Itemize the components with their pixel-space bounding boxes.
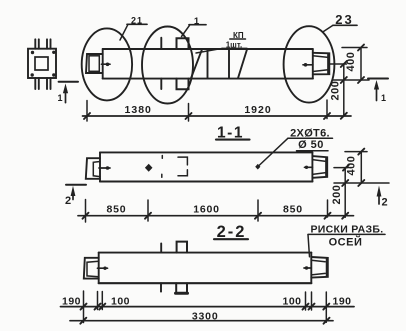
svg-text:21: 21 xyxy=(131,16,143,26)
svg-text:1: 1 xyxy=(381,93,386,103)
svg-text:2-2: 2-2 xyxy=(217,223,247,241)
svg-text:2ХØТ6.: 2ХØТ6. xyxy=(290,127,330,139)
svg-text:100: 100 xyxy=(111,295,130,307)
svg-text:3300: 3300 xyxy=(192,311,219,323)
svg-text:200: 200 xyxy=(330,81,342,101)
svg-text:100: 100 xyxy=(282,295,301,307)
svg-text:КП: КП xyxy=(233,31,244,40)
svg-text:1380: 1380 xyxy=(125,104,152,116)
svg-text:ОСЕЙ: ОСЕЙ xyxy=(329,235,363,248)
svg-text:200: 200 xyxy=(331,185,343,205)
svg-text:1920: 1920 xyxy=(244,104,271,116)
svg-text:1: 1 xyxy=(194,16,200,27)
svg-text:Ø 50: Ø 50 xyxy=(298,139,324,151)
svg-text:1-1: 1-1 xyxy=(217,125,244,142)
svg-text:400: 400 xyxy=(346,156,358,176)
svg-text:850: 850 xyxy=(107,203,127,215)
svg-text:2: 2 xyxy=(381,197,387,209)
svg-text:1600: 1600 xyxy=(193,203,220,215)
svg-text:2: 2 xyxy=(65,195,71,207)
svg-text:190: 190 xyxy=(62,295,81,307)
svg-text:РИСКИ РАЗБ.: РИСКИ РАЗБ. xyxy=(310,223,383,235)
svg-text:23: 23 xyxy=(335,12,353,27)
svg-text:1шт.: 1шт. xyxy=(226,40,243,49)
svg-text:1: 1 xyxy=(57,93,62,103)
svg-text:400: 400 xyxy=(345,52,357,72)
svg-text:190: 190 xyxy=(332,295,351,307)
svg-text:850: 850 xyxy=(283,203,303,215)
